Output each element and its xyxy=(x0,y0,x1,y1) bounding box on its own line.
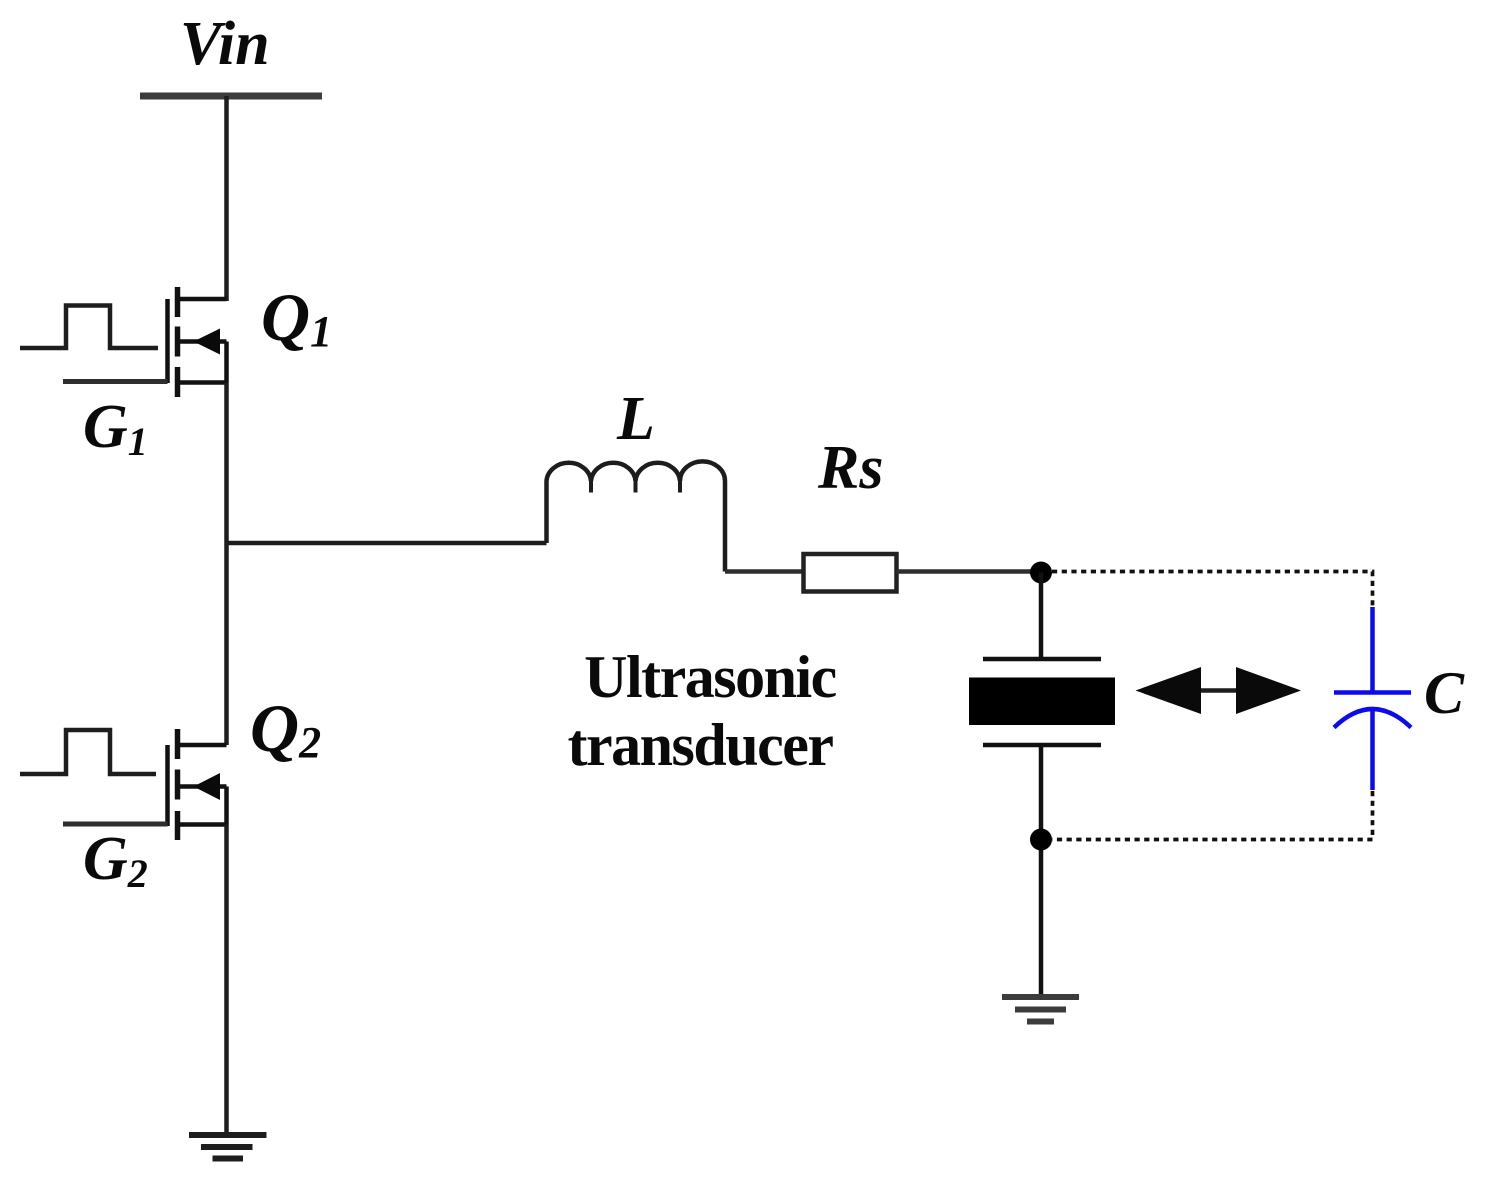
node top xyxy=(1030,562,1052,584)
ultrasonic transducer xyxy=(969,659,1115,745)
Vin supply bar xyxy=(140,93,322,100)
wire junction to inductor xyxy=(227,541,547,546)
wire Vin bar to Q1 drain xyxy=(224,96,229,301)
ground left xyxy=(189,1135,267,1159)
G2 gate pulse waveform xyxy=(20,730,156,774)
svg-text:transducer: transducer xyxy=(568,712,834,778)
wire G2 gate lead xyxy=(63,822,168,827)
svg-text:C: C xyxy=(1424,660,1465,726)
dashed link bottom (C to node) xyxy=(1052,791,1373,840)
wire inductor to resistor xyxy=(725,569,804,574)
wire Q1 source to Q2 drain xyxy=(224,383,229,746)
resistor Rs xyxy=(804,554,897,592)
motion arrow (double-headed) xyxy=(1136,667,1302,714)
capacitor C (blue) xyxy=(1334,607,1411,790)
svg-text:L: L xyxy=(616,385,655,453)
ground right xyxy=(1002,997,1079,1022)
svg-text:Vin: Vin xyxy=(180,10,270,78)
transistor Q1 xyxy=(168,287,227,397)
wire node to transducer xyxy=(1039,573,1044,660)
inductor L xyxy=(547,461,726,571)
node bottom xyxy=(1030,829,1052,851)
svg-text:Rs: Rs xyxy=(817,434,883,502)
wire resistor to node xyxy=(897,569,1042,574)
G1 gate pulse waveform xyxy=(20,306,158,349)
wire transducer to ground xyxy=(1039,745,1044,997)
wire Q2 source to ground xyxy=(224,825,229,1136)
transistor Q2 xyxy=(168,729,227,840)
dashed link top (node to C) xyxy=(1052,572,1373,607)
wire G1 gate lead xyxy=(63,379,168,384)
svg-text:Ultrasonic: Ultrasonic xyxy=(584,644,837,710)
